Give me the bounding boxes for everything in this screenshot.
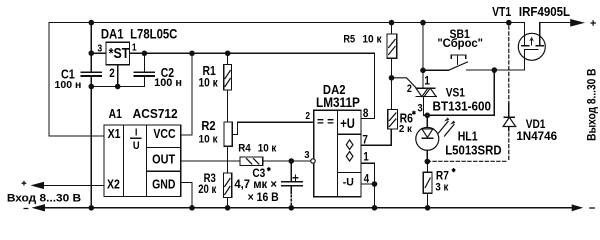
svg-text:ACS712: ACS712 xyxy=(133,107,178,121)
svg-text:3 к: 3 к xyxy=(435,181,449,194)
svg-text:= =: = = xyxy=(317,114,334,128)
svg-text:10 к: 10 к xyxy=(362,33,382,46)
svg-text:L78L05C: L78L05C xyxy=(130,26,177,41)
svg-text:× 16 В: × 16 В xyxy=(248,191,279,204)
svg-text:DA1: DA1 xyxy=(101,26,124,41)
svg-text:L5013SRD: L5013SRD xyxy=(445,143,502,158)
svg-text:BT131-600: BT131-600 xyxy=(433,99,492,114)
svg-text:*ST: *ST xyxy=(109,44,130,61)
svg-text:3: 3 xyxy=(304,150,310,161)
svg-text:1: 1 xyxy=(132,42,137,54)
svg-text:100 н: 100 н xyxy=(154,77,182,89)
svg-text:2 к: 2 к xyxy=(399,124,413,135)
svg-text:R5: R5 xyxy=(343,34,355,46)
svg-text:VS1: VS1 xyxy=(446,87,465,100)
svg-text:3: 3 xyxy=(97,43,102,55)
svg-text:X2: X2 xyxy=(107,178,120,192)
svg-text:Выход 8...30 В: Выход 8...30 В xyxy=(586,69,599,141)
svg-text:1: 1 xyxy=(363,151,368,164)
svg-text:VT1: VT1 xyxy=(492,6,512,19)
svg-text:R2: R2 xyxy=(201,118,216,133)
svg-text:VCC: VCC xyxy=(153,127,176,141)
svg-text:A1: A1 xyxy=(109,108,123,121)
svg-text:+U: +U xyxy=(340,116,355,131)
svg-text:OUT: OUT xyxy=(152,152,176,167)
svg-text:IRF4905L: IRF4905L xyxy=(519,4,571,19)
svg-text:3: 3 xyxy=(418,103,423,115)
svg-text:8: 8 xyxy=(363,107,369,120)
svg-text:"Сброс": "Сброс" xyxy=(437,38,483,50)
svg-text:1N4746: 1N4746 xyxy=(516,128,557,142)
svg-text:10 к: 10 к xyxy=(199,77,219,90)
svg-text:10 к: 10 к xyxy=(199,133,219,146)
svg-text:GND: GND xyxy=(152,178,175,192)
svg-text:4: 4 xyxy=(364,172,369,185)
svg-text:20 к: 20 к xyxy=(198,183,217,196)
svg-text:2: 2 xyxy=(109,67,115,80)
svg-text:U: U xyxy=(133,140,140,152)
svg-text:100 н: 100 н xyxy=(55,79,82,91)
svg-text:-U: -U xyxy=(343,176,354,188)
svg-text:10 к: 10 к xyxy=(258,143,277,154)
svg-text:7: 7 xyxy=(362,134,368,147)
svg-text:X1: X1 xyxy=(108,127,121,141)
svg-text:2: 2 xyxy=(305,110,310,121)
svg-text:I: I xyxy=(135,127,138,139)
svg-text:4,7 мк ×: 4,7 мк × xyxy=(234,178,277,191)
svg-text:LM311P: LM311P xyxy=(316,94,360,110)
svg-text:Вход 8...30 В: Вход 8...30 В xyxy=(7,192,81,205)
svg-text:1: 1 xyxy=(424,75,429,88)
svg-text:R4: R4 xyxy=(238,143,251,154)
svg-text:2: 2 xyxy=(407,83,412,95)
